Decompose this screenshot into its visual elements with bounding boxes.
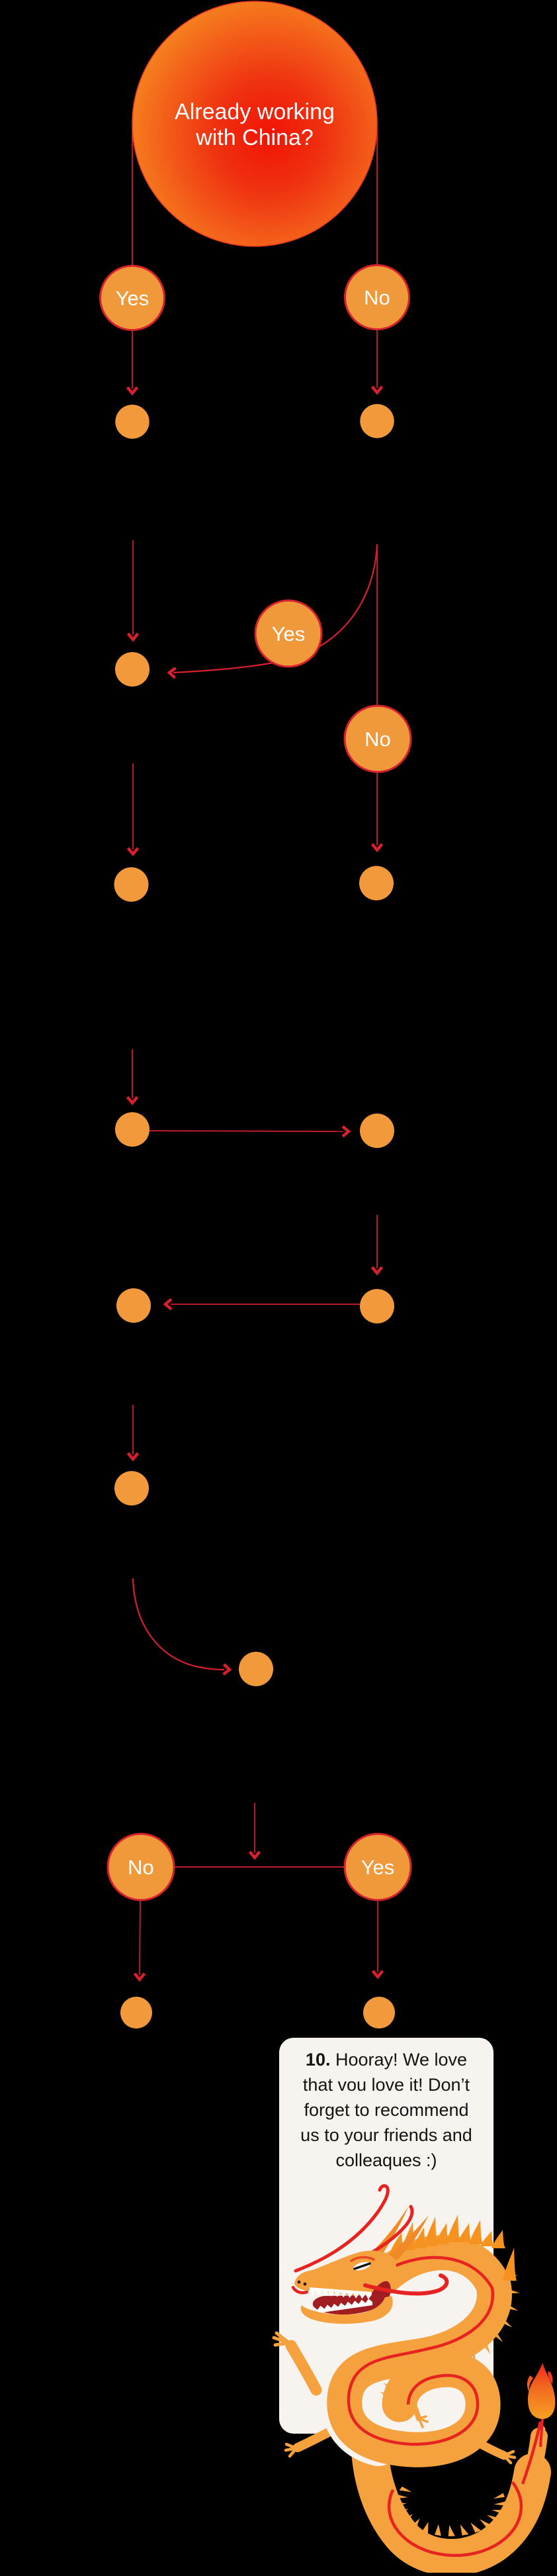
- dragon left arm: [291, 2346, 316, 2390]
- decision badge No at (213,2820): [108, 1834, 174, 1900]
- svg-text:No: No: [364, 728, 391, 751]
- svg-text:No: No: [128, 1856, 154, 1879]
- dragon eye: [353, 2260, 371, 2272]
- node dot at (570,1708): [360, 1114, 394, 1148]
- decision badge Yes at (571,2820): [345, 1834, 411, 1900]
- decision badge No at (571,1116): [345, 706, 411, 772]
- flame to tail red line: [540, 2419, 542, 2447]
- dragon head: [294, 2250, 396, 2298]
- arrow: question down to junction line: [254, 1803, 255, 1853]
- node dot at (573,3040): [363, 1997, 395, 2028]
- curved arrow: step 10 to step 11 dot: [133, 1578, 224, 1670]
- dragon lower jaw: [301, 2296, 393, 2324]
- dragon nostrils: [298, 2281, 301, 2284]
- node dot at (200,1011): [115, 652, 150, 687]
- svg-text:Yes: Yes: [361, 1856, 395, 1879]
- dragon inner ring fringe: [380, 2346, 437, 2402]
- dragon whiskers: [296, 2186, 388, 2271]
- arrow: step 9 down to step 10 dot: [132, 1405, 134, 1455]
- node dot at (569,1334): [359, 866, 394, 900]
- dragon tail coil spikes: [396, 2487, 505, 2536]
- dragon tail red stripe: [389, 2482, 521, 2555]
- svg-text:colleaques :): colleaques :): [335, 2150, 437, 2170]
- node dot at (206,3040): [120, 1997, 152, 2028]
- svg-text:Yes: Yes: [272, 622, 306, 645]
- dragon mouth: [313, 2281, 391, 2314]
- decision badge Yes at (436,957): [255, 600, 321, 667]
- dragon tail coil: [370, 2451, 533, 2557]
- decision badge No at (570,449): [345, 265, 409, 330]
- arrow: step 3 down to step 4 dot: [132, 763, 134, 849]
- node dot at (199,2248): [114, 1471, 149, 1505]
- node dot at (387,2521): [239, 1652, 273, 1686]
- svg-text:forget to recommend: forget to recommend: [304, 2100, 468, 2120]
- curved arrow: step 2 Yes to step 3 dot: [173, 544, 377, 673]
- wire: start circle to No badge: [376, 129, 378, 265]
- dragon neck fin spikes: [465, 2273, 520, 2363]
- dragon horns: [370, 2206, 409, 2256]
- start node: big gradient circle "Already working with China?": [132, 1, 377, 246]
- dragon lip curl: [293, 2287, 307, 2293]
- svg-text:10. Hooray! We love: 10. Hooray! We love: [306, 2050, 467, 2070]
- arrow: step 7 down to step 8 dot: [376, 1215, 378, 1268]
- wire: start circle to Yes badge: [132, 129, 133, 265]
- dragon left leg: [298, 2427, 339, 2448]
- arrow: Yes badge down to step 1 dot: [132, 330, 133, 389]
- hooray card: [279, 2038, 493, 2434]
- dragon body spiral: [345, 2253, 495, 2450]
- arrow: step 1 down to step 3 dot: [132, 540, 134, 635]
- node dot at (570,1973): [360, 1289, 394, 1323]
- arrow: Yes badge 3 down to hooray dot: [377, 1900, 378, 1972]
- wire: junction line between No and Yes badges: [173, 1866, 345, 1868]
- dragon tail flame: [528, 2363, 555, 2419]
- node dot at (198.5,1336): [114, 867, 149, 902]
- svg-text:Already working: Already working: [175, 99, 335, 124]
- dragon right arm: [467, 2436, 504, 2456]
- svg-text:Yes: Yes: [116, 287, 150, 310]
- arrow: step 8 left to step 9 dot: [171, 1304, 360, 1305]
- arrow: step 6 right to step 7 dot: [150, 1131, 343, 1131]
- wire: step 2 down towards No badge 2: [376, 544, 378, 706]
- dragon belly sliver: [341, 2390, 378, 2446]
- dragon tongue ribbon: [365, 2275, 447, 2293]
- node dot at (570,636): [360, 404, 394, 438]
- node dot at (202,1972): [116, 1288, 151, 1323]
- arrow: No badge down to step 2 dot: [376, 329, 378, 388]
- dragon tail taper: [533, 2436, 539, 2472]
- arrow: No badge 2 down to step 5 dot: [376, 772, 378, 845]
- arrow: No badge 3 down to end dot: [140, 1900, 140, 1975]
- dragon eyebrow: [351, 2257, 374, 2261]
- decision badge Yes at (200,450): [101, 266, 165, 330]
- dragon lower teeth: [318, 2299, 372, 2313]
- dragon mane flames: [390, 2215, 517, 2281]
- dragon illustration: [274, 2186, 555, 2557]
- svg-text:No: No: [364, 286, 390, 309]
- node dot at (200,637): [115, 405, 149, 438]
- svg-text:that vou love it! Don’t: that vou love it! Don’t: [303, 2075, 470, 2095]
- svg-text:us to your friends and: us to your friends and: [300, 2125, 472, 2145]
- dragon upper teeth: [310, 2287, 372, 2299]
- node dot at (200,1706): [115, 1112, 150, 1147]
- dragon body red stripe: [349, 2258, 493, 2444]
- svg-text:with China?: with China?: [195, 125, 314, 150]
- dragon inner hand: [413, 2403, 419, 2418]
- arrow: step 4 down to step 6 dot: [132, 1049, 133, 1098]
